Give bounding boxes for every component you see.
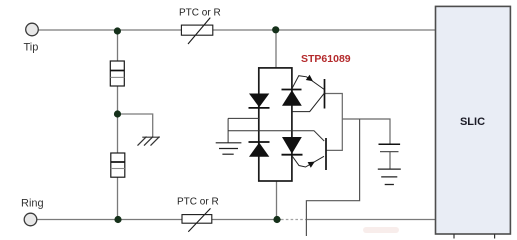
terminal Ring [24, 213, 37, 226]
wire base node to capacitor [342, 119, 390, 144]
transistor Q1 emitter/gate arrow line [292, 76, 324, 90]
svg-text:PTC or R: PTC or R [177, 197, 219, 208]
junction dot divider middle [114, 110, 121, 117]
thyristor T1 top-right (pointing up) [282, 89, 302, 91]
wire Ring rail (left solid part) [37, 219, 281, 221]
wire Ring rail dashed segment [281, 219, 307, 221]
svg-text:SLIC: SLIC [460, 116, 485, 128]
SLIC block [436, 6, 511, 234]
junction dot Tip/divider [114, 27, 121, 34]
junction dot Ring/center stub [273, 216, 280, 223]
transistor Q1 base bar [324, 79, 326, 109]
ground (3-bar) left of box [216, 143, 242, 154]
junction dot Ring/divider [114, 216, 121, 223]
resistor PTC1 (top) [181, 25, 212, 35]
pin tick 1 under SLIC [453, 234, 455, 239]
wire Tip rail [39, 29, 436, 31]
svg-text:Tip: Tip [24, 42, 39, 54]
wire return path to Ring [306, 119, 359, 236]
wire divider tap to ground [118, 114, 153, 137]
diode D2 bottom-left (pointing up) [249, 141, 270, 143]
svg-text:Ring: Ring [21, 198, 44, 210]
svg-text:PTC or R: PTC or R [179, 7, 221, 18]
resistor PTC2 (bottom) [182, 215, 212, 224]
transistor Q1 collector line [292, 93, 325, 112]
protection box STP61089 [259, 68, 292, 181]
wire Ring rail (right solid part) [307, 219, 436, 221]
pin tick 2 under SLIC [494, 234, 496, 239]
wire Q1 base link [325, 94, 343, 151]
node left mid-bridge link [228, 117, 259, 119]
wire ground drop left [227, 118, 229, 142]
divider element box1 (on Tip side) [110, 61, 124, 86]
transistor Q2 base bar [325, 138, 327, 170]
wire left divider vertical [117, 30, 119, 220]
junction dot Tip/center stub [272, 26, 279, 33]
divider element box2 (on Ring side) [111, 153, 125, 177]
wire lower cross link to Q2 collector [228, 131, 324, 141]
chassis ground on divider tap [138, 137, 160, 146]
svg-text:STP61089: STP61089 [301, 53, 351, 65]
wire top center stub [275, 30, 277, 68]
capacitor C1 [379, 143, 401, 145]
thyristor T2 bottom-right (pointing down) [282, 137, 302, 154]
ground below capacitor [378, 169, 401, 184]
transistor Q2 emitter/gate arrow line [293, 156, 325, 167]
terminal Tip [26, 23, 39, 36]
wire bottom center stub [276, 181, 278, 220]
diode D1 top-left (pointing down) [249, 94, 269, 108]
watermark smudge [363, 227, 399, 233]
